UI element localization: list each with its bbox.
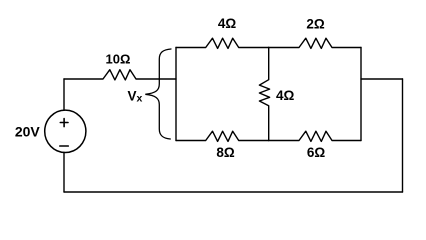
resistor 4Ω middle vertical [259, 48, 269, 141]
resistor 8Ω: bottom rail with zigzag [176, 131, 269, 141]
voltage source V1 circle [45, 110, 86, 152]
plus sign inside source [60, 119, 68, 127]
svg-text:4Ω: 4Ω [276, 88, 295, 103]
wire: source top vertical [63, 79, 65, 110]
svg-text:2Ω: 2Ω [306, 16, 325, 31]
resistor 4Ω top: top rail with zigzag [176, 38, 269, 48]
svg-text:6Ω: 6Ω [307, 145, 326, 160]
minus sign inside source [60, 145, 69, 147]
wire: outer bottom rail [64, 191, 403, 193]
wire: right step to network [361, 78, 403, 80]
svg-text:20V: 20V [15, 124, 41, 140]
wire: outer right vertical [402, 79, 404, 192]
wire: network right edge [360, 48, 362, 141]
wire: source bottom vertical [63, 152, 65, 192]
brace for Vx [145, 49, 171, 139]
resistor 6Ω: bottom rail right with zigzag [269, 131, 361, 141]
svg-text:4Ω: 4Ω [218, 16, 237, 31]
svg-text:10Ω: 10Ω [106, 52, 131, 67]
svg-text:8Ω: 8Ω [216, 145, 235, 160]
resistor 2Ω: top rail right with zigzag [269, 38, 361, 48]
wire: network left edge [175, 48, 177, 141]
resistor 10Ω [64, 70, 176, 80]
